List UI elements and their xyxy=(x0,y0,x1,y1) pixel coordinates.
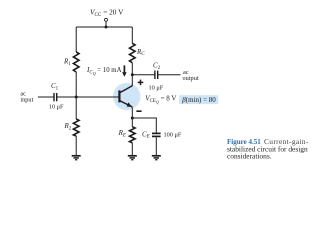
svg-text:R2: R2 xyxy=(64,122,72,131)
resistor RE xyxy=(130,127,136,143)
wire R2 to ground xyxy=(75,136,77,156)
wire RC to collector xyxy=(131,63,133,86)
svg-text:C1: C1 xyxy=(51,82,59,91)
plus sign collector xyxy=(138,81,144,83)
svg-text:R1: R1 xyxy=(63,58,71,67)
wire C1 to base xyxy=(57,96,120,98)
svg-text:10 μF: 10 μF xyxy=(149,85,164,92)
resistor RC xyxy=(130,43,136,62)
junction dot emitter node xyxy=(131,117,134,120)
minus sign emitter xyxy=(136,110,141,112)
wire RE to ground xyxy=(131,143,133,156)
wire C2 to output xyxy=(158,74,181,76)
wire left branch down to R1 xyxy=(75,27,77,52)
svg-text:ICQ = 10 mA: ICQ = 10 mA xyxy=(86,66,122,76)
svg-text:output: output xyxy=(183,75,199,82)
resistor R2 xyxy=(73,119,79,136)
capacitor CE xyxy=(152,132,161,134)
wire top bus xyxy=(76,26,132,28)
junction dot Vcc bus xyxy=(105,26,108,29)
wire CE to ground xyxy=(155,137,157,156)
wire base node down to R2 xyxy=(75,97,77,119)
junction dot collector node xyxy=(131,73,134,76)
beta box xyxy=(179,95,218,104)
svg-text:10 μF: 10 μF xyxy=(49,104,64,111)
capacitor C1 xyxy=(53,93,55,101)
current arrow ICQ xyxy=(123,65,125,72)
svg-text:RE: RE xyxy=(118,129,126,138)
capacitor C2 xyxy=(154,71,156,79)
ground under RE xyxy=(128,156,137,160)
svg-text:100 μF: 100 μF xyxy=(164,132,182,139)
wire emitter node to CE xyxy=(132,118,156,133)
transistor Q1 collector line xyxy=(119,86,132,93)
resistor R1 xyxy=(73,52,79,72)
svg-text:β(min) = 80: β(min) = 80 xyxy=(181,96,216,104)
wire R1 to base node xyxy=(75,72,77,97)
transistor Q1 emitter line with arrow xyxy=(119,101,132,108)
svg-text:VCEQ = 8 V: VCEQ = 8 V xyxy=(145,95,176,105)
transistor Q1 base bar xyxy=(118,90,120,102)
svg-text:C2: C2 xyxy=(153,62,161,71)
wire input to C1 xyxy=(38,96,54,98)
wire Vcc to bus xyxy=(105,21,107,27)
svg-text:RC: RC xyxy=(136,48,145,57)
junction dot base node xyxy=(75,96,78,99)
svg-text:CE: CE xyxy=(142,130,150,139)
ground under R2 xyxy=(72,156,81,160)
svg-text:VCC = 20 V: VCC = 20 V xyxy=(90,8,124,19)
supply terminal Vcc xyxy=(105,18,108,21)
wire collector to C2 xyxy=(132,74,155,76)
wire emitter down xyxy=(131,107,133,118)
wire right branch down to RC xyxy=(131,27,133,43)
ground under CE xyxy=(152,156,161,160)
wire emitter node to RE xyxy=(131,118,133,127)
transistor Q1 highlight circle xyxy=(113,83,140,110)
svg-text:considerations.: considerations. xyxy=(227,152,272,161)
svg-text:input: input xyxy=(20,97,33,104)
